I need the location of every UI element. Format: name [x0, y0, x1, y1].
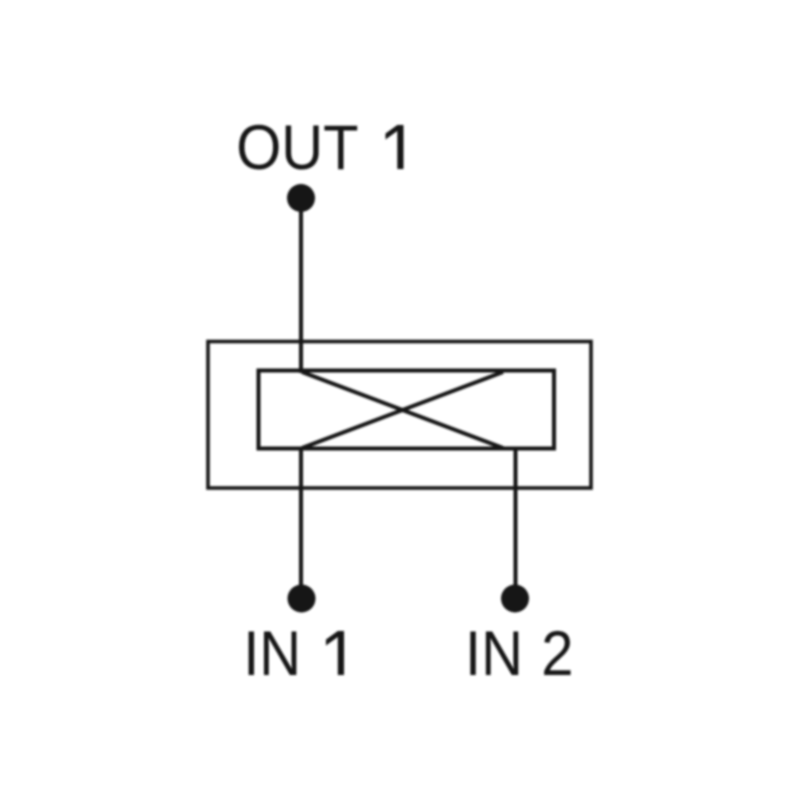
node IN 2 terminal dot [501, 585, 529, 613]
wire IN 1 from coupler [299, 448, 303, 599]
svg-text:IN: IN [465, 618, 523, 689]
wire OUT 1 to coupler [299, 198, 303, 373]
svg-text:OUT: OUT [236, 112, 358, 183]
label IN 1 digit [326, 631, 344, 675]
crossover diagonal A [302, 372, 503, 448]
node IN 1 terminal dot [288, 585, 316, 613]
coupler U1 inner box [259, 371, 555, 449]
wire IN 2 from coupler [514, 448, 518, 599]
crossover diagonal B [302, 372, 503, 448]
coupler U1 outer box [208, 342, 591, 489]
svg-text:2: 2 [541, 618, 573, 689]
label OUT 1 digit [386, 125, 404, 169]
svg-text:IN: IN [243, 618, 301, 689]
node OUT 1 terminal dot [287, 184, 315, 212]
